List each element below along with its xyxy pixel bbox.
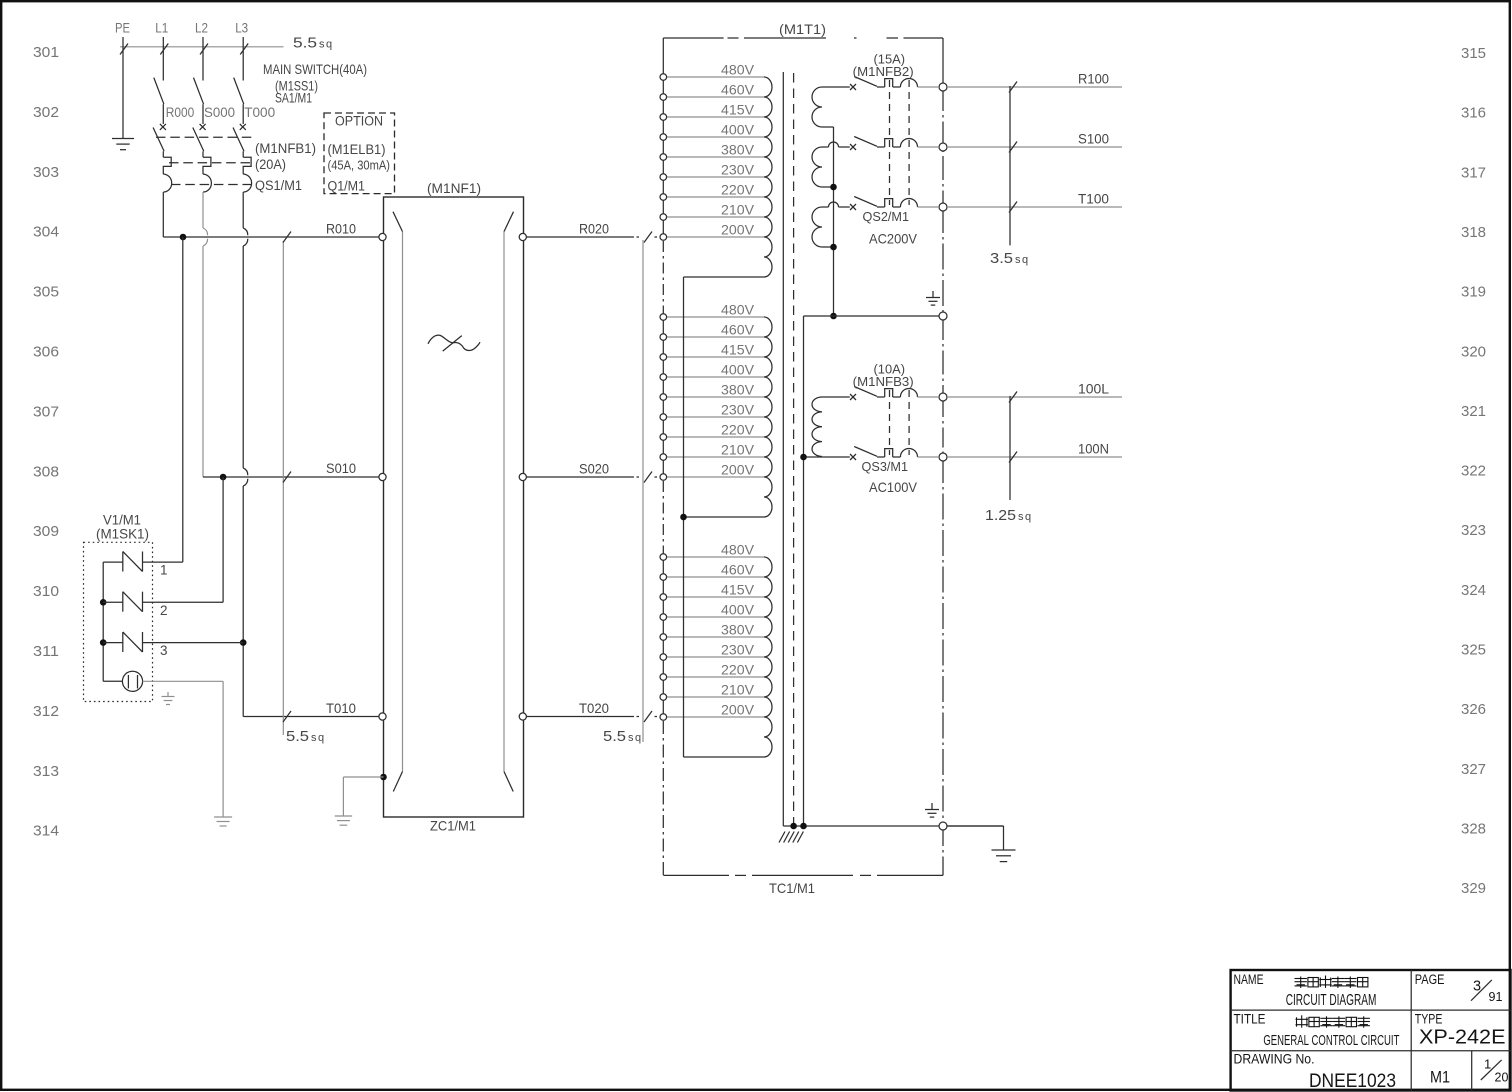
primary tap terminal 210V group 3 <box>667 696 765 698</box>
svg-text:q: q <box>1025 511 1031 523</box>
svg-text:324: 324 <box>1461 582 1486 599</box>
wire common drop <box>803 316 805 826</box>
ground V1 drop <box>214 816 232 818</box>
breaker QS1/M1 pole 1 <box>153 124 172 192</box>
ground filter case <box>335 815 353 817</box>
svg-text:380V: 380V <box>721 383 754 398</box>
node core ground junction 2 <box>800 823 807 830</box>
right row numbers 315-329 <box>1461 45 1486 897</box>
svg-text:SA1/M1: SA1/M1 <box>275 91 312 106</box>
breaker QS3/M1 pole 1 <box>850 387 938 401</box>
svg-text:20: 20 <box>1495 1071 1509 1085</box>
secondary winding W3 (T100) <box>812 202 850 247</box>
svg-text:480V: 480V <box>721 303 754 318</box>
sheet number 1/20 <box>1481 1057 1509 1085</box>
svg-text:S100: S100 <box>1078 131 1109 147</box>
terminal circle 210V group 1 <box>660 214 667 221</box>
svg-text:(M1NFB2): (M1NFB2) <box>853 64 914 79</box>
svg-text:415V: 415V <box>721 583 754 598</box>
title kanji CIRCUIT DIAGRAM (Japanese) <box>1295 977 1307 988</box>
svg-text:200V: 200V <box>721 223 754 238</box>
primary tap terminal 415V group 3 <box>667 596 765 598</box>
wire contact1 riser to R010 <box>182 237 184 562</box>
transformer enclosure top edge <box>663 37 943 39</box>
title kanji GENERAL CONTROL CIRCUIT (Japanese) <box>1296 1015 1308 1027</box>
noise filter internal left element <box>393 212 403 792</box>
svg-text:(45A, 30mA): (45A, 30mA) <box>328 158 391 173</box>
wire size marker line 3.5sq <box>1009 82 1017 246</box>
contact 3 (M1SK1) <box>103 632 243 652</box>
primary tap terminal 380V group 3 <box>667 636 765 638</box>
terminal circle 230V group 1 <box>660 174 667 181</box>
node 100V neutral junction <box>800 454 807 461</box>
terminal S010 on filter <box>379 473 386 480</box>
terminal circle 210V group 3 <box>660 694 667 701</box>
primary tap terminal 220V group 2 <box>667 436 765 438</box>
contact 2 (M1SK1) <box>103 592 223 612</box>
wire L3 drop <box>242 37 244 81</box>
svg-text:301: 301 <box>33 44 59 61</box>
noise filter ZC1/M1 box <box>384 197 524 817</box>
transformer enclosure right edge <box>942 38 944 875</box>
svg-text:318: 318 <box>1461 224 1486 241</box>
svg-text:313: 313 <box>33 763 59 780</box>
svg-text:OPTION: OPTION <box>335 114 383 129</box>
terminal circle 400V group 1 <box>660 134 667 141</box>
breaker QS1 trip linkage dashed (top) <box>156 136 254 138</box>
svg-text:L1: L1 <box>155 20 168 36</box>
svg-text:PAGE: PAGE <box>1415 972 1445 987</box>
svg-text:S000: S000 <box>204 104 235 120</box>
node junction S010/V1 <box>220 474 227 481</box>
node junction R010/V1 <box>180 234 187 241</box>
svg-text:5.5: 5.5 <box>286 728 309 745</box>
contact 1 (M1SK1) <box>103 552 183 572</box>
terminal R020 on filter <box>519 233 526 240</box>
svg-text:QS2/M1: QS2/M1 <box>863 209 910 224</box>
svg-text:2: 2 <box>160 603 168 618</box>
svg-text:320: 320 <box>1461 343 1486 360</box>
primary tap terminal 460V group 2 <box>667 336 765 338</box>
svg-text:326: 326 <box>1461 701 1486 718</box>
wire transformer core to case ground <box>783 825 1003 827</box>
svg-text:100L: 100L <box>1078 381 1109 397</box>
svg-text:R010: R010 <box>326 222 356 237</box>
node junction T/contact3 <box>240 639 247 646</box>
svg-text:5.5: 5.5 <box>603 728 626 745</box>
terminal circle 400V group 3 <box>660 614 667 621</box>
breaker QS1 trip linkage dashed (bottom) <box>171 184 254 186</box>
svg-text:QS3/M1: QS3/M1 <box>862 459 909 474</box>
svg-text:TC1/M1: TC1/M1 <box>769 880 815 896</box>
ground V1 box frame <box>162 692 175 705</box>
svg-text:(M1NFB1): (M1NFB1) <box>255 141 316 156</box>
svg-text:CIRCUIT DIAGRAM: CIRCUIT DIAGRAM <box>1286 992 1377 1009</box>
wire L3 to breaker <box>242 104 244 124</box>
svg-text:(20A): (20A) <box>255 157 286 172</box>
OPTION box (dashed) <box>324 113 395 194</box>
svg-text:s: s <box>1015 254 1021 266</box>
svg-text:327: 327 <box>1461 761 1486 778</box>
chassis ground (hatched) <box>779 832 803 843</box>
wire R100 <box>947 86 1122 88</box>
svg-text:329: 329 <box>1461 880 1486 897</box>
node filter case ground tap <box>380 774 387 781</box>
svg-text:210V: 210V <box>721 683 754 698</box>
primary winding end wire group 1 <box>684 276 765 278</box>
svg-text:91: 91 <box>1489 990 1503 1004</box>
svg-text:316: 316 <box>1461 105 1486 122</box>
svg-text:T000: T000 <box>244 104 275 120</box>
terminal circle 460V group 2 <box>660 334 667 341</box>
svg-text:380V: 380V <box>721 143 754 158</box>
terminal case ground bottom <box>939 822 947 830</box>
svg-text:400V: 400V <box>721 123 754 138</box>
terminal circle 230V group 2 <box>660 414 667 421</box>
svg-text:210V: 210V <box>721 203 754 218</box>
terminal circle 380V group 2 <box>660 394 667 401</box>
svg-text:q: q <box>1022 254 1028 266</box>
primary winding arcs group 2 <box>764 317 772 517</box>
svg-text:S020: S020 <box>579 462 609 477</box>
svg-text:M1: M1 <box>1430 1068 1450 1087</box>
wire 100N <box>947 456 1122 458</box>
primary winding arcs group 1 <box>764 77 772 277</box>
terminal circle 380V group 1 <box>660 154 667 161</box>
primary tap terminal 210V group 2 <box>667 456 765 458</box>
svg-text:303: 303 <box>33 164 59 181</box>
svg-text:Q1/M1: Q1/M1 <box>328 178 366 193</box>
terminal S100 on enclosure <box>939 143 947 151</box>
svg-text:3.5: 3.5 <box>990 250 1013 267</box>
svg-text:s: s <box>1018 511 1024 523</box>
terminal circle 480V group 1 <box>660 74 667 81</box>
secondary winding W1 (R100) <box>812 87 850 127</box>
svg-text:5.5: 5.5 <box>293 35 317 52</box>
terminal circle 200V group 3 <box>660 714 667 721</box>
svg-text:DNEE1023: DNEE1023 <box>1309 1070 1396 1092</box>
breaker QS2/M1 pole 2 <box>850 137 938 151</box>
terminal circle 415V group 2 <box>660 354 667 361</box>
noise filter internal right element <box>504 212 514 792</box>
svg-text:(M1ELB1): (M1ELB1) <box>328 142 386 157</box>
wire L2 drop <box>202 37 204 81</box>
svg-text:415V: 415V <box>721 103 754 118</box>
svg-text:T020: T020 <box>579 701 609 716</box>
label 5.5sq (left of filter) <box>286 728 324 745</box>
wire T020 <box>526 711 657 722</box>
svg-text:319: 319 <box>1461 284 1486 301</box>
svg-text:307: 307 <box>33 403 59 420</box>
wire to external ground <box>947 826 1004 850</box>
svg-text:460V: 460V <box>721 563 754 578</box>
terminal circle 220V group 1 <box>660 194 667 201</box>
main switch SA1/M1 pole L2 <box>194 78 204 105</box>
wire T010 <box>243 716 379 718</box>
primary tap terminal 480V group 3 <box>667 556 765 558</box>
wire V1 left bus <box>102 562 104 681</box>
primary tap terminal 220V group 3 <box>667 676 765 678</box>
svg-text:460V: 460V <box>721 83 754 98</box>
primary tap terminal 415V group 2 <box>667 356 765 358</box>
svg-text:460V: 460V <box>721 323 754 338</box>
title block row divider 2 <box>1231 1050 1511 1052</box>
svg-text:R100: R100 <box>1078 71 1109 87</box>
wire S020 <box>526 472 657 483</box>
wire S010 <box>203 476 379 478</box>
svg-text:230V: 230V <box>721 403 754 418</box>
terminal circle 210V group 2 <box>660 454 667 461</box>
primary tap terminal 230V group 1 <box>667 176 765 178</box>
svg-text:200V: 200V <box>721 463 754 478</box>
svg-text:309: 309 <box>33 523 59 540</box>
transformer core line <box>782 72 784 826</box>
primary tap terminal 415V group 1 <box>667 116 765 118</box>
primary tap terminal 210V group 1 <box>667 216 765 218</box>
svg-text:100N: 100N <box>1078 441 1109 457</box>
svg-text:ZC1/M1: ZC1/M1 <box>430 818 476 834</box>
terminal circle 200V group 1 <box>660 234 667 241</box>
terminal circle 400V group 2 <box>660 374 667 381</box>
node neutral junction W3 <box>830 244 837 251</box>
label 1.25sq <box>985 507 1031 524</box>
transformer shield line (dashed) <box>793 73 795 826</box>
terminal circle 460V group 1 <box>660 94 667 101</box>
primary tap terminal 460V group 1 <box>667 96 765 98</box>
terminal S020 on filter <box>519 473 526 480</box>
primary tap terminal 400V group 1 <box>667 136 765 138</box>
transformer enclosure left edge <box>662 38 664 875</box>
svg-text:1.25: 1.25 <box>985 507 1016 524</box>
wire AC200V common to case ground <box>804 315 944 317</box>
node core ground junction 1 <box>790 823 797 830</box>
svg-text:230V: 230V <box>721 163 754 178</box>
svg-text:NAME: NAME <box>1234 972 1264 987</box>
label 5.5sq (top) <box>293 35 332 52</box>
svg-text:306: 306 <box>33 344 59 361</box>
svg-text:220V: 220V <box>721 183 754 198</box>
plug/lamp symbol in V1 box <box>103 671 142 691</box>
svg-text:(M1NFB3): (M1NFB3) <box>853 374 914 389</box>
primary winding end wire group 3 <box>684 756 765 758</box>
svg-text:311: 311 <box>33 643 59 660</box>
svg-text:380V: 380V <box>721 623 754 638</box>
breaker QS3 trip linkage dashed lines <box>890 390 910 455</box>
ground external (bottom right) <box>992 849 1016 851</box>
breaker QS1 trip linkage dashed (middle) <box>169 162 254 164</box>
svg-text:GENERAL CONTROL CIRCUIT: GENERAL CONTROL CIRCUIT <box>1263 1033 1399 1049</box>
primary tap terminal 400V group 2 <box>667 376 765 378</box>
ground symbol above bottom terminal <box>925 803 939 817</box>
primary tap terminal 200V group 2 <box>667 476 765 478</box>
primary tap terminal 400V group 3 <box>667 616 765 618</box>
breaker QS2/M1 pole 1 <box>850 77 938 91</box>
svg-text:T100: T100 <box>1078 191 1109 207</box>
svg-text:230V: 230V <box>721 643 754 658</box>
primary winding arcs group 3 <box>764 557 772 757</box>
primary tap terminal 200V group 1 <box>667 236 765 238</box>
ground PE <box>112 138 134 140</box>
wire plug to ground <box>143 681 224 817</box>
svg-text:328: 328 <box>1461 820 1486 837</box>
svg-text:XP-242E: XP-242E <box>1419 1026 1506 1049</box>
svg-text:(M1NF1): (M1NF1) <box>427 181 481 196</box>
wire L1 drop <box>162 37 164 81</box>
svg-text:220V: 220V <box>721 423 754 438</box>
breaker QS1/M1 pole 2 <box>193 124 212 192</box>
primary tap terminal 380V group 1 <box>667 156 765 158</box>
terminal circle 220V group 2 <box>660 434 667 441</box>
svg-text:q: q <box>326 39 332 51</box>
svg-text:MAIN SWITCH(40A): MAIN SWITCH(40A) <box>263 61 367 77</box>
terminal circle 415V group 1 <box>660 114 667 121</box>
breaker QS3/M1 pole 2 <box>850 447 938 461</box>
svg-text:210V: 210V <box>721 443 754 458</box>
svg-text:TYPE: TYPE <box>1415 1012 1443 1027</box>
node V1 bus junction 2 <box>100 599 107 606</box>
svg-text:220V: 220V <box>721 663 754 678</box>
primary tap terminal 460V group 3 <box>667 576 765 578</box>
svg-text:315: 315 <box>1461 45 1486 62</box>
primary tap terminal 230V group 2 <box>667 416 765 418</box>
svg-text:PE: PE <box>115 20 130 36</box>
terminal T010 on filter <box>379 713 386 720</box>
svg-text:314: 314 <box>33 823 59 840</box>
svg-text:322: 322 <box>1461 463 1486 480</box>
main switch SA1/M1 pole L3 <box>234 78 244 105</box>
title block row divider 1 <box>1231 1009 1511 1011</box>
wire L1 to breaker <box>162 104 164 124</box>
wire T100 <box>947 206 1122 208</box>
svg-text:L3: L3 <box>235 20 248 36</box>
svg-text:321: 321 <box>1461 403 1486 420</box>
left row numbers 301-314 <box>33 44 59 840</box>
primary tap terminal 220V group 1 <box>667 196 765 198</box>
node V1 bus junction 3 <box>100 639 107 646</box>
svg-text:(M1SK1): (M1SK1) <box>96 527 149 542</box>
svg-text:323: 323 <box>1461 522 1486 539</box>
primary tap terminal 230V group 3 <box>667 656 765 658</box>
svg-text:s: s <box>628 732 634 744</box>
wire 100L <box>947 396 1122 398</box>
svg-text:304: 304 <box>33 224 59 241</box>
terminal T020 on filter <box>519 713 526 720</box>
node primary common junction <box>680 514 687 521</box>
svg-text:480V: 480V <box>721 543 754 558</box>
svg-text:V1/M1: V1/M1 <box>103 513 141 528</box>
svg-text:R000: R000 <box>166 104 195 120</box>
svg-text:312: 312 <box>33 703 59 720</box>
primary tap terminal 380V group 2 <box>667 396 765 398</box>
main switch SA1/M1 pole L1 <box>154 78 164 105</box>
noise filter wave symbol <box>428 335 480 351</box>
svg-text:302: 302 <box>33 104 59 121</box>
terminal circle 230V group 3 <box>660 654 667 661</box>
wire filter case to ground <box>343 777 383 816</box>
svg-text:(M1T1): (M1T1) <box>779 21 826 37</box>
svg-text:1: 1 <box>160 563 168 578</box>
svg-text:QS1/M1: QS1/M1 <box>255 178 302 193</box>
wire S100 <box>947 146 1122 148</box>
page number 3/91 <box>1471 979 1502 1005</box>
terminal circle 480V group 2 <box>660 314 667 321</box>
svg-text:s: s <box>319 39 325 51</box>
wire PE drop <box>122 37 124 138</box>
terminal R010 on filter <box>379 233 386 240</box>
svg-text:305: 305 <box>33 284 59 301</box>
wire L2 to breaker <box>202 104 204 124</box>
terminal circle 200V group 2 <box>660 474 667 481</box>
svg-text:325: 325 <box>1461 642 1486 659</box>
svg-text:TITLE: TITLE <box>1234 1012 1266 1027</box>
svg-text:317: 317 <box>1461 164 1486 181</box>
node neutral junction at common <box>830 313 837 320</box>
secondary winding W2 (S100) <box>812 142 850 187</box>
breaker QS1/M1 pole 3 <box>233 124 252 192</box>
terminal circle 480V group 3 <box>660 554 667 561</box>
wire size marker line 5.5sq (left of filter) <box>283 232 291 736</box>
title block bottom column divider <box>1471 1051 1473 1091</box>
svg-text:DRAWING No.: DRAWING No. <box>1234 1050 1315 1066</box>
svg-text:L2: L2 <box>195 20 208 36</box>
terminal case ground AC200V <box>939 312 947 320</box>
breaker QS2 trip linkage dashed lines <box>890 80 910 205</box>
primary tap terminal 480V group 1 <box>667 76 765 78</box>
svg-text:415V: 415V <box>721 343 754 358</box>
svg-text:480V: 480V <box>721 63 754 78</box>
terminal circle 415V group 3 <box>660 594 667 601</box>
wire secondary neutral bus <box>833 127 835 316</box>
wire R pole drop <box>162 192 164 237</box>
svg-text:400V: 400V <box>721 363 754 378</box>
wire size marker line 5.5sq (right of filter) <box>642 240 644 742</box>
terminal circle 380V group 3 <box>660 634 667 641</box>
svg-text:q: q <box>635 732 641 744</box>
terminal circle 460V group 3 <box>660 574 667 581</box>
secondary winding W4 (100V) <box>804 397 850 457</box>
wire primary common bus <box>683 277 685 757</box>
label 3.5sq <box>990 250 1028 267</box>
label 5.5sq (right of filter) <box>603 728 641 745</box>
terminal R100 on enclosure <box>939 83 947 91</box>
ground symbol at AC200V common terminal <box>926 291 940 305</box>
terminal circle 220V group 3 <box>660 674 667 681</box>
breaker QS2/M1 pole 3 <box>850 197 938 211</box>
svg-text:200V: 200V <box>721 703 754 718</box>
svg-text:400V: 400V <box>721 603 754 618</box>
svg-text:308: 308 <box>33 463 59 480</box>
svg-text:s: s <box>311 732 317 744</box>
svg-text:q: q <box>318 732 324 744</box>
primary tap terminal 480V group 2 <box>667 316 765 318</box>
primary winding end wire group 2 <box>684 516 765 518</box>
title block outline <box>1231 970 1511 1091</box>
node neutral junction W2 <box>830 184 837 191</box>
primary tap terminal 200V group 3 <box>667 716 765 718</box>
interlock box V1/M1 (M1SK1) dotted outline <box>84 542 153 701</box>
wire R010 <box>163 236 379 238</box>
svg-text:3: 3 <box>160 643 168 658</box>
terminal T100 on enclosure <box>939 203 947 211</box>
wire size marker line 5.5sq (top) <box>120 44 284 55</box>
wire contact2 riser to S010 <box>222 477 224 602</box>
svg-text:AC200V: AC200V <box>869 231 918 247</box>
title block column divider <box>1410 970 1412 1091</box>
wire S pole drop <box>203 192 208 477</box>
terminal 100N on enclosure <box>939 453 947 461</box>
svg-text:S010: S010 <box>326 461 356 476</box>
wire R020 <box>526 232 657 243</box>
